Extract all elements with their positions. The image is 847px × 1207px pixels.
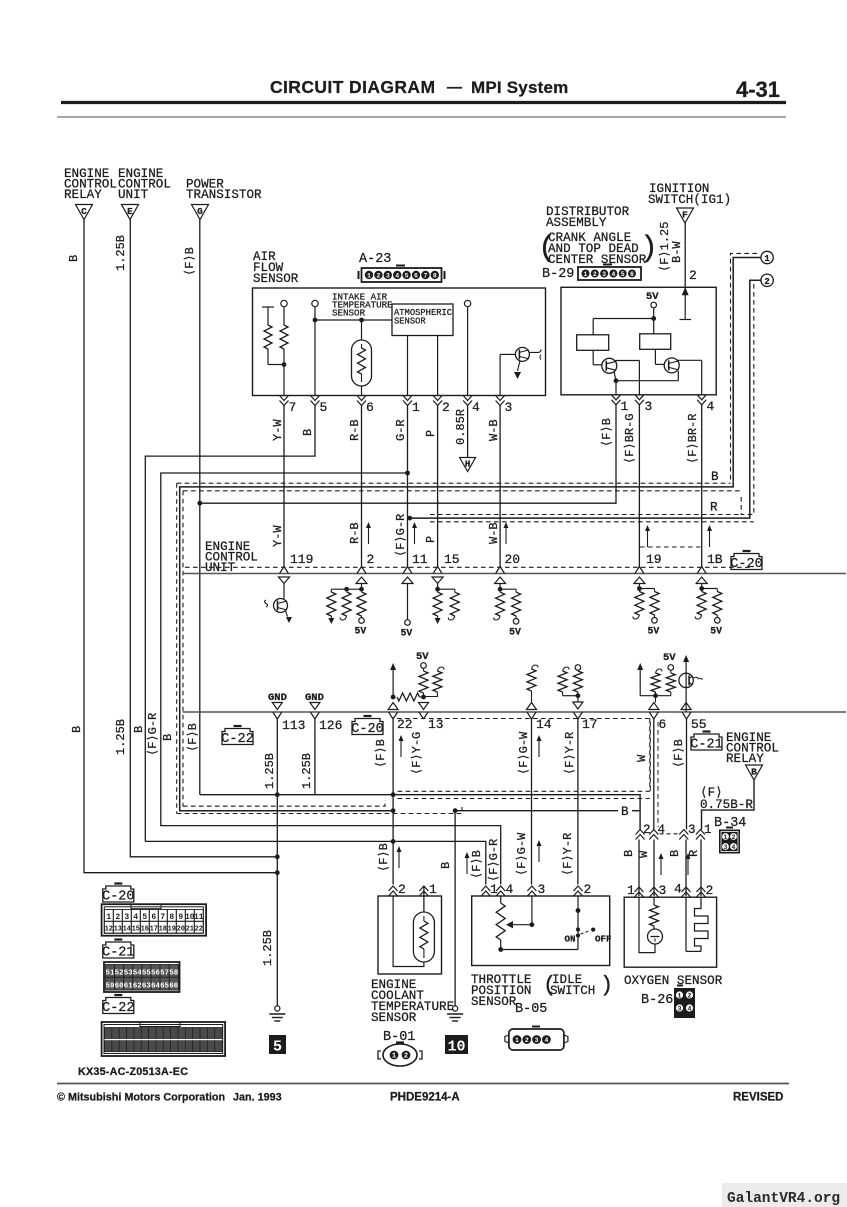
ECU pin 119 [280, 567, 285, 574]
header rule thin [57, 116, 786, 118]
svg-text:B: B [622, 850, 636, 857]
svg-text:18: 18 [159, 926, 167, 934]
AFS pin 6 exit [357, 396, 366, 401]
svg-text:61: 61 [124, 982, 134, 990]
ECU internal transistor at pin 119 [283, 584, 285, 599]
svg-text:W-B: W-B [487, 419, 501, 441]
junction dot R wire to G-R wire [407, 516, 412, 521]
svg-text:14: 14 [536, 717, 552, 732]
svg-text:4: 4 [707, 399, 715, 414]
wire 5V to right pickup coil [653, 319, 655, 334]
wire R from circle 2 [410, 280, 761, 518]
svg-text:3: 3 [538, 882, 546, 897]
ECU internal resistors at pin 15 [432, 577, 443, 584]
atmospheric sensor box [392, 304, 453, 336]
ECU pin 2 [357, 567, 362, 574]
watermark GalantVR4.org [722, 1183, 847, 1207]
connector table C-20 [103, 886, 134, 902]
svg-text:17: 17 [150, 926, 158, 934]
svg-text:19: 19 [168, 926, 176, 934]
ECU internal resistors at pin 20 [495, 577, 506, 584]
svg-text:2: 2 [398, 882, 406, 897]
svg-text:R: R [710, 501, 718, 515]
svg-text:10: 10 [447, 1039, 465, 1056]
short dashed near C-20 [640, 546, 702, 548]
svg-text:1.25B: 1.25B [261, 930, 275, 966]
svg-text:6: 6 [414, 272, 418, 279]
distributor pin 3 exit [635, 395, 644, 400]
svg-text:3: 3 [678, 1005, 682, 1012]
svg-text:57: 57 [160, 970, 169, 978]
oxygen pin 2 [697, 887, 706, 892]
svg-text:1: 1 [621, 399, 629, 414]
svg-text:⟨F⟩B: ⟨F⟩B [374, 739, 388, 768]
wire ECU 55 to B-34 pin 3 [686, 718, 688, 830]
B-34 joint pin 3 [679, 830, 688, 835]
svg-text:⟨F⟩B: ⟨F⟩B [183, 247, 197, 276]
AFS pin 1 exit [403, 396, 412, 401]
wire emitter bus [616, 380, 678, 382]
svg-text:3: 3 [659, 883, 667, 898]
ECU pin 1B [697, 567, 702, 574]
svg-text:4: 4 [688, 1005, 692, 1012]
svg-text:15: 15 [132, 926, 140, 934]
svg-text:W-B: W-B [487, 522, 501, 544]
oxygen zirconia element meander [685, 897, 687, 951]
svg-text:5: 5 [405, 272, 409, 279]
engine coolant temperature sensor box [378, 896, 442, 974]
junction dot intake temp sensor [359, 318, 364, 323]
svg-text:5: 5 [621, 271, 625, 278]
wire F-BR-G distributor pin3 to ECU 19 [638, 405, 640, 567]
ECU top edge line [183, 573, 846, 575]
svg-text:8: 8 [433, 272, 437, 279]
AFS pin 2 exit [433, 396, 442, 401]
svg-text:2: 2 [706, 883, 714, 898]
connector icon A-23 8-pin [362, 268, 442, 282]
oxygen pin 4 [682, 887, 691, 892]
ECU internal resistors at pin 17 [558, 671, 567, 692]
svg-text:6: 6 [366, 400, 374, 415]
svg-text:(: ( [538, 232, 556, 266]
oxygen heater resistor [653, 897, 655, 905]
svg-text:6: 6 [659, 717, 667, 732]
wire ECU 22 down to coolant sensor pin 2 [392, 718, 394, 885]
svg-text:C-20: C-20 [351, 722, 383, 737]
svg-text:G-R: G-R [394, 419, 408, 441]
idle switch [577, 896, 579, 950]
junction dot G-R branch [405, 471, 410, 476]
shield dashed around wire 1 [731, 253, 758, 483]
wire W-B AFS pin3 to ECU 20 [499, 405, 501, 567]
svg-text:3: 3 [386, 272, 390, 279]
ECU pin 126 [310, 712, 315, 719]
svg-text:⟨F⟩Y-R: ⟨F⟩Y-R [561, 833, 575, 876]
svg-text:PHDE9214-A: PHDE9214-A [390, 1092, 460, 1104]
wire Y-W AFS pin7 to ECU 119 [283, 405, 285, 567]
svg-text:63: 63 [142, 982, 152, 990]
terminal triangle B relay [746, 765, 763, 780]
svg-text:58: 58 [169, 970, 179, 978]
ECU pin 22 [389, 712, 394, 719]
connector icon B-01 [383, 1044, 417, 1066]
svg-text:B: B [161, 734, 175, 741]
wire G-R branch routed left [161, 473, 501, 885]
svg-text:5V: 5V [401, 628, 413, 639]
svg-text:B: B [621, 805, 629, 819]
svg-text:W: W [635, 754, 649, 762]
svg-text:7: 7 [289, 400, 297, 415]
svg-text:B-29: B-29 [542, 267, 574, 282]
wire ignition input pin 2 inside box [684, 287, 686, 319]
svg-text:⟨F⟩G-W: ⟨F⟩G-W [515, 832, 529, 876]
svg-text:2: 2 [376, 272, 380, 279]
distributor assembly box [561, 287, 716, 395]
svg-text:Y-W: Y-W [271, 419, 285, 441]
footer rule [57, 1083, 789, 1085]
svg-text:P: P [424, 430, 438, 437]
dashed jumper between B-34 pins [660, 833, 680, 835]
svg-text:5: 5 [320, 400, 328, 415]
svg-text:51: 51 [105, 970, 115, 978]
shield dashed left outer vertical [176, 483, 178, 813]
relay wire F 0.75B-R [702, 780, 755, 830]
throttle bottom bus [501, 949, 578, 951]
svg-text:2: 2 [689, 268, 697, 283]
svg-text:4: 4 [544, 1037, 548, 1044]
wire to earth terminal 10 [454, 811, 456, 1006]
svg-text:5: 5 [273, 1039, 282, 1056]
svg-text:B: B [751, 767, 757, 778]
ECU pin 19 [635, 567, 640, 574]
svg-text:GalantVR4.org: GalantVR4.org [727, 1191, 840, 1207]
svg-text:SENSOR: SENSOR [394, 317, 426, 327]
svg-text:KX35-AC-Z0513A-EC: KX35-AC-Z0513A-EC [78, 1066, 188, 1078]
AFS wire pin4 with terminal circle [464, 300, 470, 306]
AFS pin 4 exit [463, 396, 472, 401]
svg-text:⟨F⟩B: ⟨F⟩B [186, 723, 200, 752]
connector icon B-05 [509, 1029, 564, 1050]
wire F-BR-R distributor pin4 to ECU 1B [701, 405, 703, 567]
svg-text:20: 20 [505, 552, 521, 567]
wire ECU 126 down to ground bus [314, 718, 316, 795]
svg-text:⟨F⟩G-R: ⟨F⟩G-R [394, 514, 408, 557]
svg-text:CENTER SENSOR: CENTER SENSOR [548, 253, 647, 267]
svg-text:3: 3 [645, 399, 653, 414]
svg-text:6: 6 [151, 913, 156, 922]
throttle pin 2 [574, 886, 583, 891]
terminal triangle E [122, 205, 139, 220]
shield dashed along W wire [649, 722, 651, 791]
svg-text:1: 1 [678, 992, 682, 999]
atmospheric sensor output wires [407, 336, 409, 396]
svg-text:5: 5 [142, 913, 147, 922]
ECU pin 20 [496, 567, 501, 574]
wire F-B distributor pin1 to power transistor node [200, 405, 616, 504]
wires B-34 to oxygen sensor [638, 840, 640, 897]
junction dot 22 wire at B ground line [391, 839, 396, 844]
throttle pin 1 [481, 886, 490, 891]
shield dashed below B wire [183, 490, 741, 492]
oxygen pin 1 [635, 887, 644, 892]
numbered connector circle 2 [761, 274, 773, 286]
wire Q1 collector to pin 3 [615, 360, 639, 362]
coolant thermistor oval [413, 912, 434, 962]
svg-text:15: 15 [444, 552, 460, 567]
svg-text:F: F [682, 210, 688, 221]
svg-text:SENSOR: SENSOR [332, 308, 366, 319]
junction dot 5V node [651, 316, 656, 321]
svg-text:7: 7 [423, 272, 427, 279]
ECU bottom edge line [183, 711, 846, 713]
svg-text:SENSOR: SENSOR [371, 1011, 417, 1025]
shield dashed left inner vertical [182, 491, 184, 806]
AFS internal resistor R-b with terminal circle [281, 300, 287, 306]
svg-text:UNIT: UNIT [118, 188, 149, 202]
svg-text:OFF: OFF [595, 934, 612, 945]
svg-text:C-20: C-20 [730, 557, 762, 572]
svg-text:14: 14 [123, 926, 131, 934]
throttle pin 4 [496, 886, 505, 891]
svg-text:4: 4 [611, 271, 615, 278]
svg-text:⟨F⟩G-R: ⟨F⟩G-R [146, 713, 160, 756]
wire Q2 collector to pin 4 [678, 359, 702, 361]
svg-text:17: 17 [582, 717, 598, 732]
svg-text:⟨F⟩Y-R: ⟨F⟩Y-R [563, 732, 577, 775]
svg-text:2: 2 [732, 834, 736, 841]
wire right coil to transistor Q2 base [654, 349, 656, 364]
svg-text:): ) [600, 973, 613, 998]
svg-text:B-W: B-W [670, 241, 684, 263]
wire 5V to left pickup coil [593, 318, 654, 320]
oxygen pin 3 [650, 887, 659, 892]
ECU pin 14 [527, 712, 532, 719]
svg-text:22: 22 [195, 926, 203, 934]
svg-text:Y-W: Y-W [271, 525, 285, 547]
wire temp sensor top link [315, 319, 392, 321]
svg-text:1: 1 [412, 400, 420, 415]
svg-text:⟨F⟩BR-G: ⟨F⟩BR-G [623, 414, 637, 464]
junction dot emitters [614, 378, 619, 383]
connector icon B-29 6-pin [578, 267, 641, 280]
svg-text:13: 13 [114, 926, 122, 934]
svg-text:C: C [81, 206, 87, 217]
svg-text:20: 20 [177, 926, 185, 934]
AFS pin 5 exit [311, 396, 320, 401]
ECU pin 13 [419, 712, 424, 719]
connector symbol C-20 right [731, 554, 762, 570]
svg-text:H: H [465, 460, 470, 470]
svg-text:1.25B: 1.25B [263, 753, 277, 789]
wire B AFS pin5 routed left [145, 405, 315, 842]
ECU internal resistors at pin 1B [696, 577, 707, 584]
svg-text:E: E [127, 206, 133, 217]
svg-text:62: 62 [133, 982, 143, 990]
coolant sensor internal ground loop [393, 896, 424, 967]
ECU internal network at pins 22/13 [392, 666, 394, 698]
connector icon B-34 [719, 830, 740, 854]
B-34 joint pin 1 [696, 830, 705, 835]
wire R-B AFS pin6 to ECU 2 [361, 405, 363, 567]
svg-text:4: 4 [658, 823, 666, 837]
junction dot 113 [275, 792, 280, 797]
svg-text:A-23: A-23 [359, 252, 391, 267]
svg-text:SENSOR: SENSOR [253, 272, 299, 286]
svg-text:RELAY: RELAY [726, 752, 764, 766]
connector table C-21 [103, 942, 134, 958]
B-34 joint pin 4 [649, 830, 658, 835]
svg-text:RELAY: RELAY [64, 188, 102, 202]
svg-text:5V: 5V [646, 291, 659, 303]
ECU pin 6 [649, 712, 654, 719]
svg-text:⟨F⟩G-R: ⟨F⟩G-R [487, 839, 501, 882]
svg-text:54: 54 [133, 970, 143, 978]
wire Q1 emitter to pin 1 [614, 372, 616, 381]
throttle potentiometer [500, 896, 502, 903]
svg-text:3: 3 [724, 844, 728, 851]
svg-text:B-05: B-05 [515, 1002, 547, 1017]
AFS pin 3 exit [496, 396, 505, 401]
wire B from relay triangle C [84, 220, 277, 873]
throttle position sensor box [472, 896, 610, 966]
svg-text:1.25B: 1.25B [300, 753, 314, 789]
oxygen cell ground loop [639, 897, 655, 952]
ECU internal network at pins 6/55 [639, 666, 641, 696]
wire ECU 6 W to B-34 pin 4 [653, 718, 655, 830]
distributor pin 1 exit [612, 395, 621, 400]
junction dot R-a/R-b [282, 362, 287, 367]
wire B from circle 1 [180, 258, 761, 811]
transistor Q2 [664, 358, 679, 373]
earth terminal 5 [275, 1006, 280, 1011]
distributor pin 4 exit [697, 395, 706, 400]
svg-text:1: 1 [367, 272, 371, 279]
svg-text:3: 3 [602, 271, 606, 278]
wire ECU 113 down to ground bus [276, 718, 278, 795]
svg-text:B: B [668, 850, 682, 857]
terminal triangle G [192, 205, 209, 220]
terminal triangle C [76, 205, 93, 220]
svg-text:C-21: C-21 [102, 946, 134, 961]
svg-text:G: G [197, 206, 203, 217]
junction dot 22 wire at ground bus [391, 792, 396, 797]
svg-text:16: 16 [141, 926, 149, 934]
shield dashed above B wire [177, 482, 731, 484]
transistor Q1 [602, 358, 617, 373]
connector symbol C-21 [691, 734, 722, 750]
svg-text:3: 3 [505, 400, 513, 415]
svg-text:B: B [70, 726, 84, 733]
AFS output transistor Q-afs [515, 347, 529, 361]
svg-text:60: 60 [115, 982, 125, 990]
svg-text:5V: 5V [355, 626, 367, 637]
ECU pin 11 [403, 567, 408, 574]
svg-text:B-34: B-34 [714, 816, 746, 831]
svg-text:11: 11 [412, 552, 428, 567]
svg-text:ASSEMBLY: ASSEMBLY [546, 216, 607, 230]
svg-text:21: 21 [186, 926, 194, 934]
connector symbol C-22 [222, 729, 253, 745]
ECU pin 55 [682, 712, 687, 719]
connector symbol C-20 mid [352, 719, 383, 735]
svg-text:1: 1 [764, 254, 770, 264]
svg-text:⟨F⟩B: ⟨F⟩B [377, 843, 391, 872]
svg-text:CIRCUIT DIAGRAM: CIRCUIT DIAGRAM [270, 77, 435, 97]
svg-text:1: 1 [429, 882, 437, 897]
svg-text:B: B [67, 255, 81, 262]
svg-text:11: 11 [194, 913, 204, 922]
svg-text:B: B [301, 429, 315, 436]
shield dashed bottom inner [183, 800, 385, 806]
svg-text:): ) [640, 232, 658, 266]
throttle wiper arm [531, 896, 533, 925]
svg-text:2: 2 [404, 1053, 408, 1061]
AFS pin 7 exit [280, 396, 289, 401]
numbered connector circle 1 [761, 251, 773, 263]
svg-text:(: ( [543, 973, 556, 998]
svg-text:2: 2 [643, 823, 651, 837]
svg-text:⟨F⟩B: ⟨F⟩B [470, 850, 484, 879]
wire G-R AFS pin1 to ECU 11 [407, 405, 409, 567]
ECU internal transistor at pin 55 [681, 703, 691, 710]
wire ECU 17 to throttle pin 2 [577, 718, 579, 885]
svg-text:2: 2 [367, 552, 375, 567]
ECU boundary dashed through pin row [185, 566, 750, 568]
svg-text:5V: 5V [509, 626, 521, 637]
svg-text:5V: 5V [648, 625, 660, 636]
coolant sensor pin 1 [419, 886, 428, 891]
svg-text:TRANSISTOR: TRANSISTOR [186, 188, 262, 202]
junction dot B wire to sensor ground wire [391, 808, 396, 813]
svg-text:19: 19 [646, 552, 662, 567]
ECU internal resistors at pin 2 [356, 577, 367, 584]
oxygen sensor cell [653, 926, 655, 929]
svg-text:22: 22 [397, 717, 413, 732]
wire left coil to transistor Q1 base [592, 350, 594, 365]
junction dot power transistor wire [197, 501, 202, 506]
ECU internal resistors at pin 19 [634, 577, 645, 584]
svg-text:R-B: R-B [348, 522, 362, 544]
ECU pin 113 [273, 712, 278, 719]
svg-text:0.75B-R: 0.75B-R [700, 798, 753, 812]
wire 0.85R AFS pin4 to H terminal [467, 405, 469, 458]
air flow sensor box [253, 288, 546, 396]
svg-text:4: 4 [674, 882, 682, 897]
connector table C-22 [103, 998, 134, 1014]
wire 1.25B from ECU triangle E [130, 220, 277, 857]
svg-text:—: — [447, 79, 462, 96]
svg-text:1: 1 [392, 1053, 396, 1061]
svg-text:1: 1 [627, 883, 635, 898]
svg-text:6: 6 [630, 271, 634, 278]
svg-text:2: 2 [115, 913, 120, 922]
svg-text:⟨F⟩BR-R: ⟨F⟩BR-R [686, 414, 700, 464]
svg-text:9: 9 [178, 913, 183, 922]
ground bus branch to earth 10 [455, 810, 618, 812]
svg-text:4: 4 [133, 913, 138, 922]
svg-text:B: B [711, 470, 719, 484]
svg-text:SWITCH: SWITCH [550, 984, 595, 998]
svg-text:SWITCH(IG1): SWITCH(IG1) [648, 193, 731, 207]
ECU internal resistor at pin 14 [527, 669, 536, 691]
shield dashed around ECU pins 22-6 [397, 718, 650, 720]
terminal triangle H [460, 458, 476, 472]
shield dashed above R wire [430, 514, 741, 516]
wire B AFS pin5 branch to throttle pin 1 [145, 841, 486, 884]
svg-text:⟨F⟩B: ⟨F⟩B [600, 418, 614, 447]
svg-text:5V: 5V [710, 625, 722, 636]
svg-text:4: 4 [472, 400, 480, 415]
